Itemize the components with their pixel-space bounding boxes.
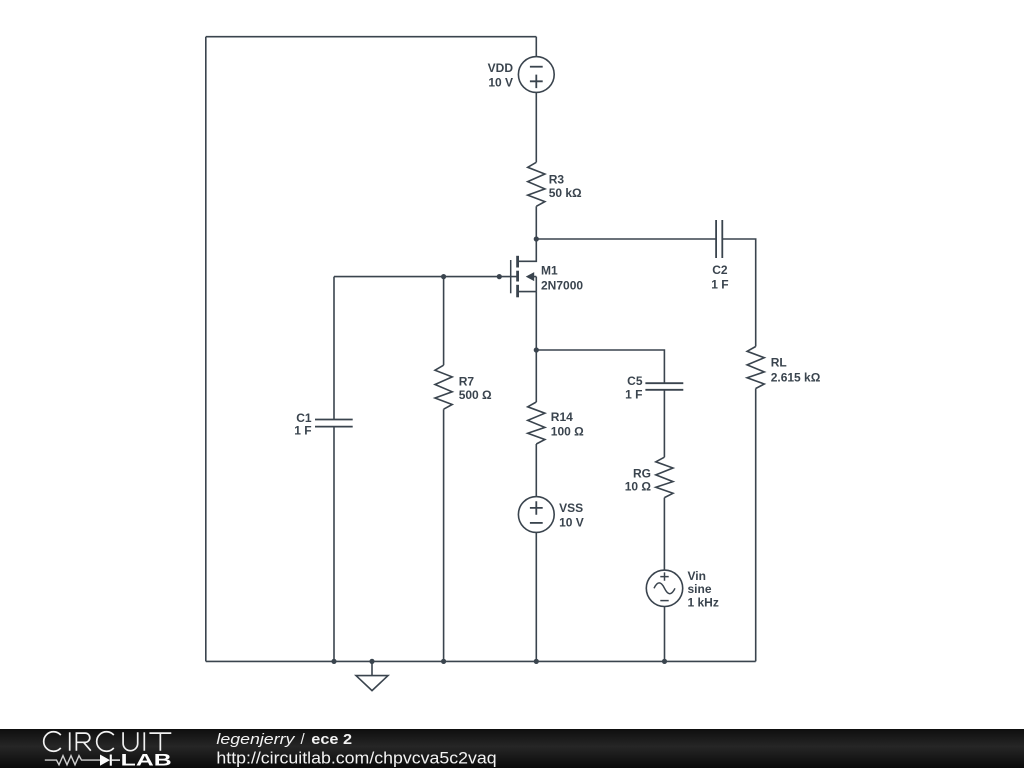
wire C2 to RL xyxy=(722,239,755,347)
resistor R7 xyxy=(435,365,452,409)
svg-text:sine: sine xyxy=(688,582,712,596)
svg-text:M1: M1 xyxy=(541,264,558,278)
footer bar xyxy=(0,729,1024,768)
svg-text:1 F: 1 F xyxy=(625,387,642,401)
wire node to C2 xyxy=(536,238,716,240)
voltage source VSS xyxy=(518,497,554,533)
svg-text:10 Ω: 10 Ω xyxy=(625,480,652,494)
node VSS bottom junction xyxy=(534,659,539,664)
voltage source Vin xyxy=(646,570,682,606)
label VSS value xyxy=(559,501,584,530)
svg-text:R7: R7 xyxy=(459,374,475,388)
label VDD value xyxy=(488,61,514,90)
svg-text:10 V: 10 V xyxy=(488,75,513,89)
svg-text:2N7000: 2N7000 xyxy=(541,278,583,292)
footer author title xyxy=(216,731,352,748)
svg-text:RL: RL xyxy=(771,356,787,370)
svg-text:2.615 kΩ: 2.615 kΩ xyxy=(771,371,821,385)
node C1 bottom junction xyxy=(331,659,336,664)
ground xyxy=(356,661,388,690)
svg-text:RG: RG xyxy=(633,466,651,480)
svg-text:500 Ω: 500 Ω xyxy=(459,388,492,402)
wire R7 branch upper xyxy=(443,277,445,366)
wire gate to C1 xyxy=(333,277,335,420)
node Vin bottom junction xyxy=(662,659,667,664)
svg-text:ece 2: ece 2 xyxy=(311,731,352,748)
label R3 value xyxy=(549,172,582,200)
footer url xyxy=(216,749,496,767)
svg-text:VSS: VSS xyxy=(559,501,583,515)
resistor R3 xyxy=(528,162,545,206)
svg-text:C5: C5 xyxy=(627,374,643,388)
svg-text:50 kΩ: 50 kΩ xyxy=(549,186,582,200)
svg-text:LAB: LAB xyxy=(121,752,172,768)
wire RL to bottom rail xyxy=(755,389,757,662)
label Vin value xyxy=(688,569,719,610)
svg-text:C2: C2 xyxy=(712,263,728,277)
node ground junction xyxy=(369,659,374,664)
svg-text:100 Ω: 100 Ω xyxy=(551,424,584,438)
svg-text:R3: R3 xyxy=(549,172,565,186)
label RG value xyxy=(625,466,652,493)
node gate junction xyxy=(497,274,502,279)
svg-text:R14: R14 xyxy=(551,410,573,424)
resistor RL xyxy=(747,347,764,389)
wire C1 to bottom rail xyxy=(333,427,335,662)
wire M1 source down through node xyxy=(535,292,537,402)
wire left rail xyxy=(205,37,207,662)
svg-text:1 F: 1 F xyxy=(294,424,311,438)
voltage source VDD xyxy=(518,57,554,93)
logo wordmark CIRCUIT xyxy=(44,732,172,752)
wire R3 to drain node xyxy=(535,206,537,239)
logo wordmark LAB xyxy=(121,752,172,768)
svg-text:VDD: VDD xyxy=(488,61,514,75)
wire gate rail xyxy=(334,276,518,278)
node gate junction R7 xyxy=(441,274,446,279)
svg-text:10 V: 10 V xyxy=(559,516,584,530)
wire VSS to bottom rail xyxy=(535,532,537,661)
wire RG to Vin xyxy=(663,498,665,571)
node drain junction xyxy=(534,236,539,241)
wire VDD to R3 xyxy=(535,92,537,162)
logo mark resistor-diode xyxy=(45,755,120,766)
capacitor C2 xyxy=(716,220,722,258)
wire VDD top lead xyxy=(535,37,537,57)
svg-text:Vin: Vin xyxy=(688,569,706,583)
svg-text:1 F: 1 F xyxy=(711,277,728,291)
resistor R14 xyxy=(528,402,545,444)
svg-text:http://circuitlab.com/chpvcva5: http://circuitlab.com/chpvcva5c2vaq xyxy=(216,749,496,767)
label C2 value xyxy=(711,263,728,291)
capacitor C5 xyxy=(645,383,683,390)
wire R14 to VSS xyxy=(535,444,537,497)
label C1 value xyxy=(294,411,312,438)
wire R7 to bottom rail xyxy=(443,409,445,661)
label R7 value xyxy=(459,374,492,402)
wire top rail xyxy=(206,36,537,38)
capacitor C1 xyxy=(315,420,353,427)
transistor M1 xyxy=(511,239,537,297)
node source junction xyxy=(534,347,539,352)
wire node to C5 xyxy=(536,350,664,383)
label RL value xyxy=(771,356,821,385)
label C5 value xyxy=(625,374,643,402)
wire Vin to bottom rail xyxy=(664,607,666,662)
label R14 value xyxy=(551,410,584,439)
resistor RG xyxy=(656,457,673,497)
label M1 value xyxy=(541,264,583,293)
wire C5 to RG xyxy=(663,390,665,457)
wire bottom rail xyxy=(206,660,756,662)
svg-text:legenjerry: legenjerry xyxy=(216,731,296,748)
svg-text:1 kHz: 1 kHz xyxy=(688,596,719,610)
node R7 bottom junction xyxy=(441,659,446,664)
